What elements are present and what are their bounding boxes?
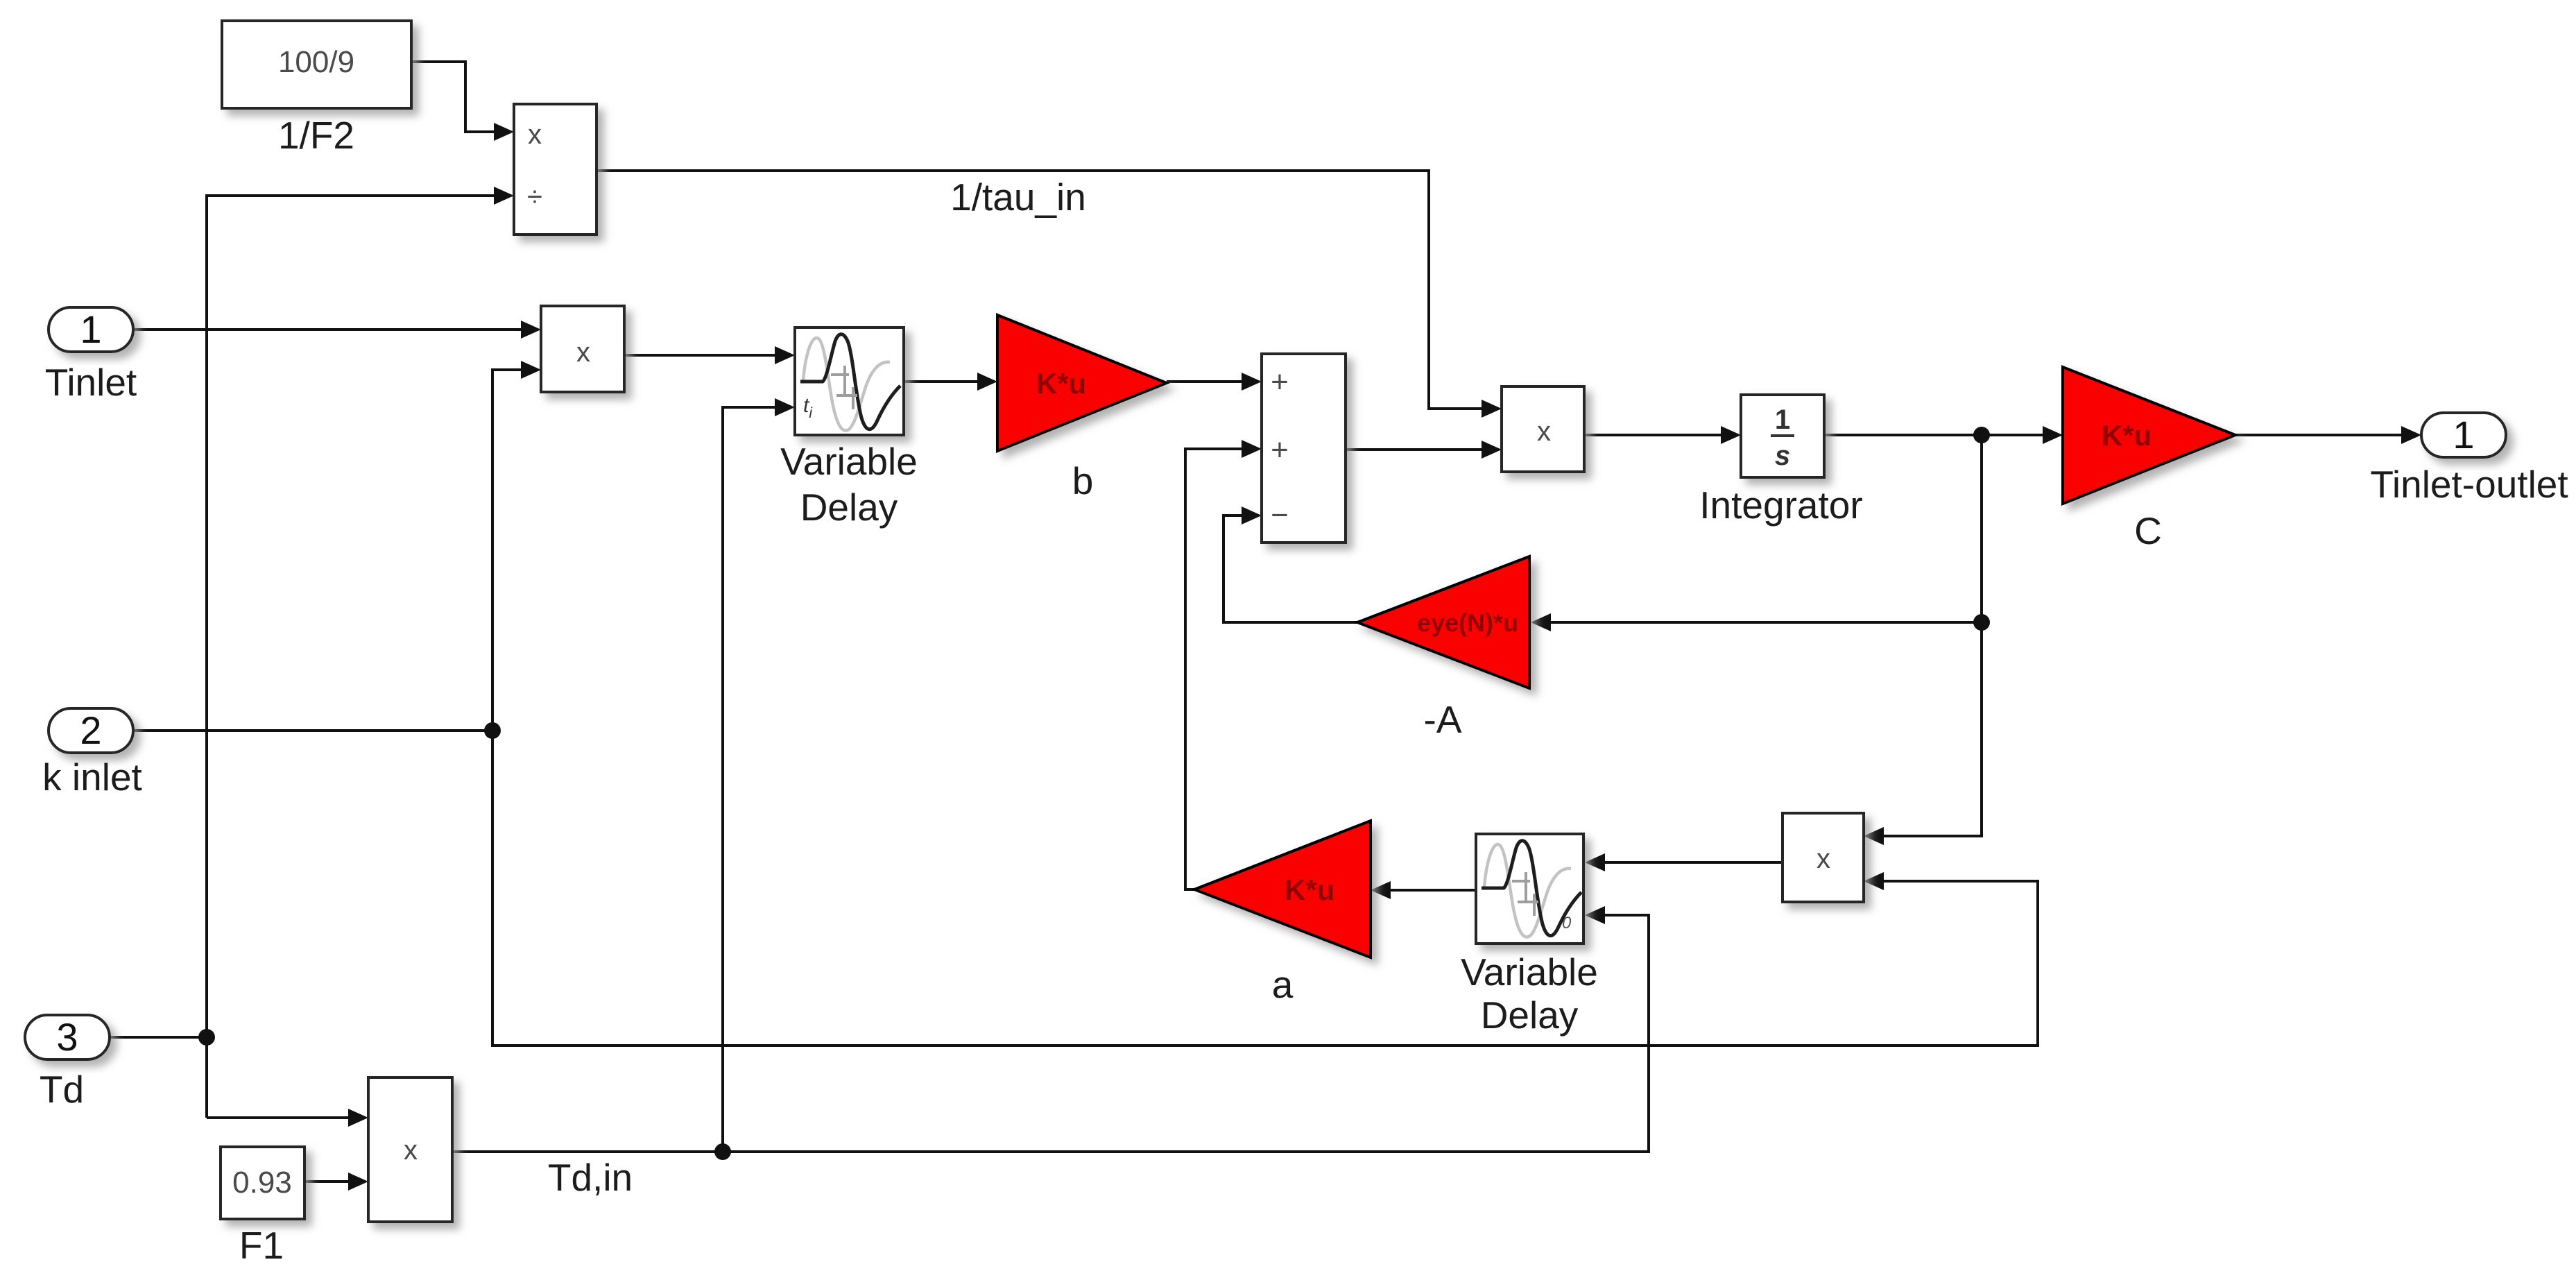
arrowhead gain -A input xyxy=(1531,613,1551,631)
wire from gain b output to sum input 1 xyxy=(1167,380,1243,383)
junction dot Td xyxy=(198,1029,215,1046)
wire Td,in from product x4 output to Variable Delay 2 input t0 xyxy=(452,915,1649,1152)
wire from constant 1/F2 to divide block input 1 xyxy=(411,62,495,132)
arrowhead product x4 input 2 xyxy=(348,1173,368,1191)
gain C red triangle xyxy=(2063,367,2235,504)
svg-text:eye(N)*u: eye(N)*u xyxy=(1417,608,1518,637)
wire from Td,in junction up to Variable Delay 1 input ti xyxy=(723,407,776,1152)
arrowhead sum input 2 xyxy=(1242,440,1262,458)
svg-text:K*u: K*u xyxy=(1285,873,1334,906)
svg-text:Td,in: Td,in xyxy=(548,1156,633,1199)
svg-text:−: − xyxy=(1271,498,1289,532)
svg-text:Tinlet: Tinlet xyxy=(45,361,137,404)
arrowhead product x2 input 2 xyxy=(1482,441,1502,459)
svg-text:a: a xyxy=(1272,963,1294,1006)
svg-text:x: x xyxy=(528,119,542,150)
svg-text:100/9: 100/9 xyxy=(278,45,354,79)
outport 1 Tinlet-outlet xyxy=(2421,413,2506,457)
wire from gain C output to outport 1 xyxy=(2235,434,2403,436)
arrowhead product x1 input 2 xyxy=(521,361,541,379)
svg-text:2: 2 xyxy=(80,708,101,752)
svg-text:Integrator: Integrator xyxy=(1699,484,1862,527)
arrowhead Variable Delay 1 input ti xyxy=(775,398,795,416)
junction dot k inlet xyxy=(484,722,501,739)
wire from Variable Delay 2 output to gain a input xyxy=(1389,889,1476,892)
svg-text:x: x xyxy=(1537,416,1551,447)
divide block xyxy=(514,104,596,235)
wire from Variable Delay 1 output to gain b xyxy=(904,380,979,383)
svg-text:K*u: K*u xyxy=(1036,367,1086,400)
wire from product x1 output to Variable Delay 1 input 1 xyxy=(624,354,776,357)
junction dot integrator output xyxy=(1973,427,1990,443)
constant block F1 value 0.93 xyxy=(221,1147,304,1219)
wire from sum output to product x2 input 2 xyxy=(1346,448,1483,451)
gain a red triangle xyxy=(1194,821,1371,957)
svg-text:Tinlet-outlet: Tinlet-outlet xyxy=(2370,463,2568,506)
svg-text:3: 3 xyxy=(56,1015,78,1059)
svg-text:x: x xyxy=(576,337,590,368)
svg-text:Variable: Variable xyxy=(1461,951,1598,994)
wire from k junction down and right to product x3 input 2 xyxy=(492,731,2038,1046)
wire from feedback junction left to gain -A input xyxy=(1549,621,1982,624)
product block x3 xyxy=(1783,813,1864,902)
svg-text:0: 0 xyxy=(1562,914,1572,932)
product block x4 xyxy=(368,1077,452,1222)
arrowhead Variable Delay 1 input 1 xyxy=(775,346,795,364)
svg-text:-A: -A xyxy=(1424,698,1462,741)
Integrator block 1/s xyxy=(1741,395,1824,477)
svg-text:Variable: Variable xyxy=(780,440,918,483)
svg-text:1: 1 xyxy=(80,307,101,351)
arrowhead divide input 2 xyxy=(494,187,514,205)
label Variable Delay 1 xyxy=(780,440,918,529)
arrowhead outport 1 xyxy=(2401,426,2421,444)
arrowhead product x3 input 2 xyxy=(1864,872,1884,890)
arrowhead sum input 3 minus xyxy=(1242,506,1262,525)
inport 2 k inlet xyxy=(49,708,133,753)
inport 1 Tinlet xyxy=(49,307,133,352)
arrowhead gain b input xyxy=(977,373,997,391)
junction dot Td,in xyxy=(714,1143,731,1160)
svg-text:F1: F1 xyxy=(239,1224,284,1267)
svg-text:1: 1 xyxy=(1775,404,1790,435)
wire from inport 3 Td to junction xyxy=(110,1036,207,1039)
gain b red triangle xyxy=(997,315,1167,451)
wire from product x3 output to Variable Delay 2 input 1 xyxy=(1604,861,1783,864)
wire from constant F1 to product x4 input 2 xyxy=(304,1180,350,1183)
wire from Integrator output to gain C input xyxy=(1824,434,2044,436)
svg-text:s: s xyxy=(1775,441,1790,471)
arrowhead product x4 input 1 xyxy=(348,1109,368,1127)
svg-text:+: + xyxy=(1271,365,1289,399)
vertical feedback wire from integrator junction down xyxy=(1882,435,1982,836)
wire from inport 2 k inlet to junction xyxy=(130,729,492,732)
product block x2 xyxy=(1502,386,1584,472)
wire from product x2 output to Integrator input xyxy=(1584,434,1722,436)
wire from gain a output up to sum input 2 xyxy=(1185,449,1243,889)
arrowhead product x2 input 1 xyxy=(1482,400,1502,418)
arrowhead sum input 1 xyxy=(1242,373,1262,391)
constant block 1/F2 value 100/9 xyxy=(222,21,411,108)
svg-text:1: 1 xyxy=(2453,413,2474,457)
arrowhead Variable Delay 2 input t0 xyxy=(1585,906,1605,924)
svg-text:1/F2: 1/F2 xyxy=(278,114,354,157)
wire from inport 1 Tinlet to product x1 input 1 xyxy=(133,328,522,331)
svg-text:k inlet: k inlet xyxy=(42,756,142,799)
arrowhead gain C input xyxy=(2043,426,2063,444)
arrowhead gain a input xyxy=(1371,881,1391,899)
svg-text:Delay: Delay xyxy=(800,486,898,529)
wire from k junction up to product x1 input 2 xyxy=(492,370,522,731)
arrowhead Variable Delay 2 input 1 xyxy=(1585,853,1605,871)
arrowhead divide input 1 xyxy=(494,123,514,141)
Variable Delay 1 block xyxy=(795,327,904,435)
svg-text:Td: Td xyxy=(40,1068,84,1111)
arrowhead product x3 input 1 xyxy=(1864,827,1884,845)
svg-text:÷: ÷ xyxy=(527,182,542,212)
sum block xyxy=(1262,354,1346,543)
svg-text:b: b xyxy=(1072,459,1094,502)
svg-text:+: + xyxy=(1271,433,1289,467)
product block x1 xyxy=(541,306,624,392)
label Variable Delay 2 xyxy=(1461,951,1598,1037)
Variable Delay 2 block mirrored xyxy=(1476,834,1583,944)
junction dot feedback -A xyxy=(1973,614,1990,631)
arrowhead product x1 input 1 xyxy=(521,321,541,339)
svg-text:x: x xyxy=(1817,844,1830,874)
svg-text:x: x xyxy=(404,1135,418,1166)
wire 1/tau_in from divide output to product x2 input 1 xyxy=(596,171,1483,409)
svg-text:Delay: Delay xyxy=(1481,994,1579,1037)
wire from gain -A output to sum input 3 minus xyxy=(1223,515,1357,622)
arrowhead Integrator input xyxy=(1721,426,1741,444)
inport 3 Td xyxy=(25,1015,110,1059)
svg-text:C: C xyxy=(2134,509,2162,552)
svg-text:K*u: K*u xyxy=(2102,419,2152,452)
vertical wire Td branch up to divide input 2 and down to product x4 input 1 xyxy=(207,196,495,1118)
svg-text:1/tau_in: 1/tau_in xyxy=(950,176,1086,219)
svg-text:0.93: 0.93 xyxy=(232,1166,292,1200)
gain -A red triangle eye(N)*u xyxy=(1357,556,1529,688)
